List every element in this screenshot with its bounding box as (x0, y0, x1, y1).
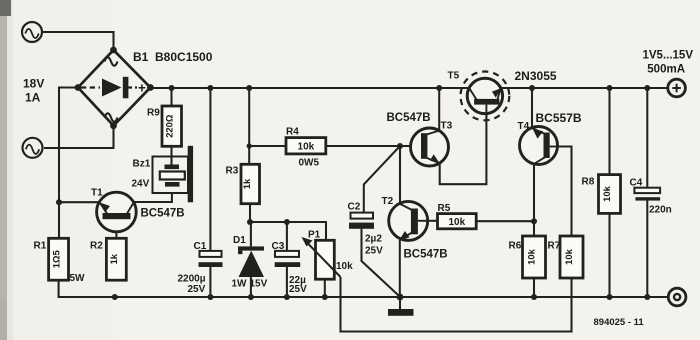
wire T4 collector top vertical (531, 88, 533, 129)
wire R5 right to R6 node (476, 220, 534, 222)
wire R3 branch vertical (248, 88, 250, 164)
capacitor C4 (634, 188, 660, 201)
wire P1 bottom (324, 279, 326, 297)
transistor T2 (389, 201, 428, 240)
wire P1 wiper to feedback and R7 bottom (341, 277, 572, 332)
junction dots misc (56, 143, 537, 225)
wire R4 left (249, 145, 286, 147)
wire top positive rail right segment (501, 87, 668, 89)
svg-text:R8: R8 (582, 177, 595, 188)
svg-text:+: + (138, 81, 146, 96)
svg-text:18V: 18V (23, 77, 44, 91)
wire T2 base to R5 (428, 220, 438, 222)
svg-text:2200µ: 2200µ (178, 274, 206, 285)
svg-text:10k: 10k (526, 248, 537, 264)
resistor R7 (560, 236, 583, 278)
svg-text:500mA: 500mA (647, 64, 685, 76)
svg-text:10k: 10k (448, 217, 465, 228)
svg-text:C3: C3 (272, 241, 285, 252)
svg-text:C1: C1 (194, 241, 207, 252)
svg-text:0W5: 0W5 (299, 158, 320, 169)
wire bottom zero rail (59, 280, 669, 297)
transistor T4 (520, 127, 558, 165)
svg-text:T3: T3 (441, 121, 453, 132)
svg-text:10k: 10k (563, 248, 574, 264)
svg-text:BC547B: BC547B (404, 249, 448, 261)
svg-text:24V: 24V (132, 179, 150, 190)
wire R9 top (170, 88, 172, 106)
capacitor C2 (349, 213, 374, 229)
wire T1 emitter to R2 (115, 219, 117, 238)
svg-text:R1: R1 (34, 241, 47, 252)
wire AC top to bridge (43, 32, 114, 50)
svg-text:T5: T5 (448, 71, 460, 82)
svg-text:25V: 25V (188, 284, 206, 295)
svg-text:B1 B80C1500: B1 B80C1500 (133, 50, 213, 64)
resistor R6 (523, 236, 546, 278)
transistor T1 (97, 192, 137, 232)
wire R6 top (533, 221, 535, 236)
svg-text:D1: D1 (233, 235, 246, 246)
output terminal plus (668, 79, 686, 97)
wire C2 bottom diagonal to ground node (362, 229, 400, 297)
svg-text:220n: 220n (649, 205, 672, 216)
wire C4 top (646, 88, 648, 188)
wire C3 top (286, 222, 288, 251)
capacitor C3 (275, 251, 301, 267)
wire bridge left vertex to left rail (59, 88, 78, 239)
svg-text:P1: P1 (308, 230, 321, 241)
svg-text:R6: R6 (509, 241, 522, 252)
potentiometer P1 (302, 237, 341, 279)
svg-text:C2: C2 (348, 202, 361, 213)
transistor T3 (411, 128, 449, 166)
svg-text:25V: 25V (365, 246, 383, 257)
svg-text:BC547B: BC547B (387, 112, 431, 124)
wire R4 right to T3 base (326, 145, 411, 147)
svg-text:R7: R7 (548, 241, 561, 252)
wire C4 bottom (646, 201, 648, 298)
svg-text:R4: R4 (286, 127, 299, 138)
svg-text:1V5...15V: 1V5...15V (642, 50, 693, 62)
resistor R8 (599, 175, 621, 214)
AC source top (22, 22, 42, 42)
svg-text:15V: 15V (250, 279, 268, 290)
svg-text:BC557B: BC557B (536, 111, 582, 125)
svg-text:1Ω5: 1Ω5 (50, 250, 61, 268)
svg-text:25V: 25V (289, 284, 307, 295)
svg-text:1A: 1A (25, 91, 41, 105)
svg-text:R3: R3 (226, 166, 239, 177)
bridge diode (102, 77, 128, 99)
wire top positive rail left segment (150, 87, 469, 89)
resistor R5 (438, 214, 477, 229)
wire D1 bottom (250, 277, 252, 297)
resistor R4 (286, 138, 326, 154)
wire T4 base to R7 top (551, 147, 572, 237)
bridge top sine mark (105, 57, 118, 65)
capacitor C1 (199, 251, 223, 267)
wire T3 collector vertical (438, 88, 440, 131)
svg-text:2N3055: 2N3055 (515, 69, 557, 83)
svg-text:1k: 1k (241, 178, 252, 189)
svg-text:2µ2: 2µ2 (365, 234, 382, 245)
svg-text:T2: T2 (382, 196, 394, 207)
bridge bottom sine mark (105, 113, 118, 121)
svg-text:C4: C4 (630, 178, 643, 189)
wire R8 top (608, 88, 610, 175)
svg-text:1k: 1k (108, 253, 119, 264)
wire C2 top diagonal from T3 base node (364, 146, 400, 213)
wire R3 bottom (249, 204, 251, 222)
svg-text:Bz1: Bz1 (133, 159, 151, 170)
wire R6 bottom (533, 278, 535, 297)
wire AC bottom to bridge (44, 126, 114, 148)
svg-text:10k: 10k (298, 142, 315, 153)
svg-text:1W: 1W (232, 279, 248, 290)
transistor T5 power 2N3055 (461, 72, 510, 121)
wire T4 emitter down to R6 node (533, 164, 535, 221)
wire T1 base from left rail (59, 201, 100, 203)
buzzer Bz1 (153, 146, 194, 203)
wire D1 top (250, 222, 252, 246)
wire buzzer bottom to T1 collector (134, 193, 172, 202)
wire R9 bottom into buzzer (170, 146, 172, 165)
wire ground stub (399, 297, 401, 309)
svg-text:894025 - 11: 894025 - 11 (594, 317, 645, 328)
wire C1 top (209, 88, 211, 251)
output terminal zero (668, 288, 686, 306)
wire divider bus D1 C3 P1 (250, 222, 326, 240)
svg-text:R9: R9 (147, 108, 160, 119)
svg-text:T4: T4 (518, 121, 530, 132)
svg-text:T1: T1 (91, 188, 103, 199)
AC source bottom (23, 138, 43, 158)
svg-text:R2: R2 (90, 241, 103, 252)
resistor R2 (106, 238, 126, 280)
ground symbol (388, 309, 414, 316)
svg-text:5W: 5W (70, 273, 86, 284)
bridge dashed line (81, 86, 150, 88)
svg-text:R5: R5 (438, 203, 451, 214)
resistor R3 (241, 164, 260, 203)
svg-text:220Ω: 220Ω (164, 114, 175, 138)
wire C3 bottom (286, 267, 288, 297)
bridge rectifier B1 diamond (78, 50, 150, 126)
wire T3 emitter to T5 base (440, 104, 487, 184)
wire C1 bottom (209, 267, 211, 297)
svg-text:10k: 10k (601, 185, 612, 201)
scan corner smudge (0, 0, 11, 16)
zener diode D1 (238, 246, 264, 277)
junction dots top rail (169, 85, 651, 91)
wire T2 emitter to ground node (399, 240, 401, 297)
bridge vertex nodes (75, 47, 154, 129)
svg-text:10k: 10k (336, 261, 353, 272)
junction dots bottom rail (112, 294, 651, 301)
svg-text:BC547B: BC547B (141, 208, 185, 220)
resistor R9 (162, 106, 182, 146)
wire R8 bottom (608, 213, 610, 297)
resistor R1 (49, 238, 69, 280)
wire T2 collector vertical (399, 146, 401, 204)
scan left edge strip (0, 0, 7, 340)
